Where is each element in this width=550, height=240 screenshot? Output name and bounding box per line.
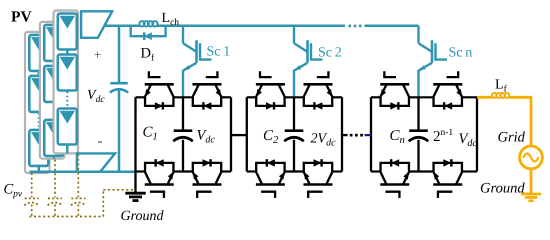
capacitor C2 (284, 131, 304, 142)
ellipsis dots on top rail (349, 25, 362, 28)
inductor Lf (492, 93, 509, 98)
IGBT cell2 top-right (304, 71, 333, 109)
PV panel 1 (front) (54, 11, 79, 154)
svg-text:Sc 1: Sc 1 (207, 45, 231, 60)
IGBT celln bottom-right (433, 159, 462, 198)
wire: PV dc link vertical (118, 26, 121, 172)
parasitic capacitor Cpv1 (24, 198, 39, 205)
PV panel 2 (middle) (40, 22, 65, 159)
capacitor Cn (409, 131, 429, 142)
cell 2 bottom node wires (247, 170, 342, 172)
PV panel 3 (back) (25, 32, 50, 173)
IGBT celln bottom-left (380, 159, 409, 198)
IGBT celln top-left (380, 71, 409, 109)
cell n top node wires (371, 96, 477, 98)
cell 2 left rail (246, 97, 248, 171)
wire: top charging rail (104, 25, 419, 28)
inductor Lch (139, 21, 157, 26)
wire: output to grid (477, 97, 531, 193)
cell n bottom node wires (371, 170, 477, 172)
svg-text:-: - (98, 134, 103, 150)
cell 1 top node wires (136, 96, 232, 98)
svg-text:Ground: Ground (121, 209, 165, 224)
charging switch Scn (419, 26, 448, 98)
IGBT cell2 bottom-left (256, 159, 285, 198)
svg-text:+: + (94, 47, 101, 62)
cell 1 right rail (230, 97, 232, 171)
charging switch Sc2 (294, 26, 323, 98)
charging switch Sc1 (183, 26, 212, 98)
cell n capacitor column (417, 97, 419, 171)
cell 2 right rail (341, 97, 343, 171)
IGBT cell1 bottom-right (193, 159, 222, 198)
cell 2 top node wires (247, 96, 342, 98)
ground (grid) (521, 194, 541, 201)
wire: negative bus under panels to cell 1 (29, 171, 135, 174)
AC grid source (520, 146, 543, 169)
svg-text:PV: PV (11, 9, 32, 26)
wire: cell1-cell2 link (231, 134, 247, 136)
svg-text:Sc n: Sc n (449, 46, 473, 61)
capacitor C1 (173, 131, 193, 142)
wire: navy link segment (365, 134, 371, 136)
ground (cell 1) (125, 193, 145, 200)
IGBT cell2 top-left (256, 71, 285, 109)
parasitic capacitor Cpv3 (71, 198, 86, 205)
diode Df bypass branch (131, 26, 166, 40)
svg-text:Sc 2: Sc 2 (318, 46, 342, 61)
IGBT cell1 top-right (193, 71, 222, 109)
IGBT celln top-right (433, 71, 462, 109)
svg-text:Grid: Grid (498, 130, 526, 146)
cell 1 capacitor column (182, 97, 184, 171)
cell 2 capacitor column (293, 97, 295, 171)
IGBT cell1 bottom-left (145, 159, 174, 198)
svg-text:Ground: Ground (480, 181, 525, 197)
wire: cell2-celln link with ellipsis (342, 134, 348, 136)
IGBT cell2 bottom-right (304, 159, 333, 198)
PV positive terminal flag (81, 11, 112, 38)
cell n left rail (370, 97, 372, 171)
capacitor PV dc-link (110, 83, 128, 92)
cell 1 bottom node wires (136, 170, 232, 172)
Cpv parasitic network wires (29, 154, 133, 216)
cell n right rail (476, 97, 478, 171)
PV negative terminal flag (77, 153, 115, 171)
IGBT cell1 top-left (145, 71, 174, 109)
cell 1 left rail (134, 97, 136, 193)
parasitic capacitor Cpv2 (48, 198, 63, 205)
